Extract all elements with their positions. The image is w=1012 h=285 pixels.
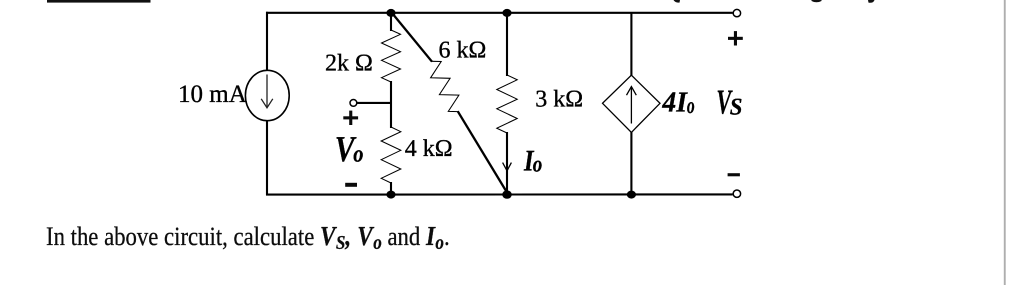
wire: dependent source to bottom rail <box>630 132 632 195</box>
node B (top of 3k) <box>502 9 511 17</box>
wire: top rail <box>266 12 733 14</box>
wire: left branch above current source <box>266 12 268 71</box>
node: bottom of 4k <box>386 191 395 199</box>
svg-text:o: o <box>687 93 695 118</box>
resistor R 6k lead upper <box>392 13 432 62</box>
wire: top rail to dependent source <box>630 13 632 76</box>
current source I1 arrow <box>261 75 273 108</box>
page border right <box>1004 0 1006 285</box>
terminal: Vo open circle <box>350 100 357 107</box>
terminal: output bottom open circle <box>733 190 740 197</box>
svg-text:3 kΩ: 3 kΩ <box>535 87 583 113</box>
current source I1 circle <box>245 70 289 120</box>
node C (bottom of 3k/6k) <box>502 190 512 198</box>
dependent source 4Io diamond <box>603 75 661 132</box>
node D (bottom of dependent source) <box>627 191 636 199</box>
heading underline (cut off at top) <box>47 0 151 3</box>
arrow Io on 3k branch <box>503 163 512 171</box>
resistor R 6k lead lower <box>458 111 507 192</box>
terminal: output top open circle <box>733 9 740 16</box>
wire: stub node A to 2k <box>390 13 392 31</box>
svg-text:4 kΩ: 4 kΩ <box>405 136 453 162</box>
label - (Vo) <box>345 183 357 187</box>
resistor R 2k body <box>382 30 401 82</box>
svg-text:2k Ω: 2k Ω <box>325 50 373 76</box>
wire: Vo tap <box>357 102 391 104</box>
resistor R 3k body <box>497 75 517 133</box>
svg-text:10 mA: 10 mA <box>178 81 247 108</box>
wire: node B to 3k <box>506 13 508 76</box>
label - (VS) <box>728 173 740 176</box>
label + (VS) <box>728 31 743 45</box>
svg-text:S: S <box>730 94 743 120</box>
cut-off text descender "y" <box>868 0 875 3</box>
wire: 3k to bottom rail <box>506 132 508 195</box>
wire: between 2k and 4k <box>390 81 392 128</box>
cut-off text descender "(" <box>674 0 681 3</box>
wire: 4k to bottom rail <box>390 182 392 195</box>
svg-text:o: o <box>533 152 543 177</box>
resistor R 6k body <box>431 61 459 111</box>
wire: left branch below current source <box>266 120 268 195</box>
label + (Vo) <box>343 111 358 125</box>
node A (top of 2k/6k) <box>386 9 395 17</box>
resistor R 4k body <box>381 127 401 183</box>
cut-off text descender "g" <box>812 0 822 2</box>
svg-text:4I: 4I <box>661 87 688 119</box>
svg-text:6 kΩ: 6 kΩ <box>439 37 487 63</box>
wire: bottom rail <box>266 193 733 195</box>
svg-text:o: o <box>353 142 363 168</box>
dependent source 4Io arrow <box>627 87 637 124</box>
caption text <box>46 220 450 255</box>
